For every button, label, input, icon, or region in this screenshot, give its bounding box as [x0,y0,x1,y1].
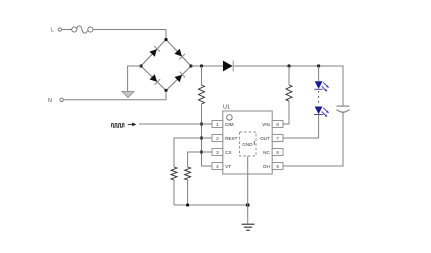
wire capacitor to CH pin 5 [283,112,343,166]
earth ground symbol [242,205,255,230]
pin label NC [263,150,270,155]
node rail / ground [246,203,250,207]
pin 6 box [272,149,283,156]
diode D4 (bridge bottom-right) [174,72,185,83]
wire REXT pin 2 to resistor R3 [174,138,212,167]
diode D1 (bridge top-left) [149,46,160,57]
svg-text:N: N [48,98,52,104]
wire N terminal to bridge bottom [63,91,166,100]
svg-text:1: 1 [216,122,219,127]
svg-text:U1: U1 [223,104,230,110]
terminal L circle [58,28,61,31]
pin 5 box [272,163,283,170]
pin label CS [225,150,231,155]
terminal L label [51,28,54,34]
wire CS pin 3 to resistor R4 [188,152,212,167]
PWM dimming square-wave symbol [112,124,125,128]
node bridge top vertex [164,38,167,41]
LED LED1 [314,81,329,92]
wire bridge left vertex to chassis ground [128,66,141,91]
node R1 column / DIM wire [200,122,203,125]
node bridge left vertex [139,64,142,67]
pin label OH [263,164,270,169]
wire R1 down to VT pin [202,104,213,166]
svg-text:L: L [51,28,54,34]
diode D3 (bridge bottom-left) [149,74,160,85]
svg-text:8: 8 [276,122,279,127]
bridge rectifier frame [141,40,191,91]
svg-text:OH: OH [263,164,270,169]
resistor R1 (bus to DIM/REXT/CS/VT column) [199,85,205,104]
terminal N label [48,98,52,104]
wire bus to LED1 [318,66,320,81]
LED LED2 [314,107,329,118]
wire bus to resistor R1 [201,66,203,85]
node bus / VIN resistor junction [287,64,290,67]
pin label VT [225,164,231,169]
svg-text:DIM: DIM [225,122,234,127]
svg-text:VT: VT [225,164,231,169]
svg-text:VIN: VIN [262,122,270,127]
wire LED2 to OUT pin 7 [283,115,319,138]
PWM input arrow [128,123,137,127]
svg-text:6: 6 [276,150,279,155]
wire bridge output to diode D5 [191,65,223,67]
resistor R4 (CS) [185,167,191,180]
node R1 column / CS wire [200,150,203,153]
node bus / R1 junction [200,64,203,67]
terminal N circle [60,98,63,101]
svg-text:4: 4 [216,164,219,169]
pin label VIN [262,122,270,127]
svg-text:NC: NC [263,150,270,155]
pin label REXT [225,136,237,141]
svg-text:3: 3 [216,150,219,155]
diode D2 (bridge top-right) [174,49,185,60]
pin label OUT [260,136,270,141]
node rail / R4 [186,203,189,206]
wire R2 to VIN pin 8 [283,101,289,124]
svg-text:7: 7 [276,136,279,141]
op-amp U1 body [223,104,272,174]
wire dashed LED string continuation [318,91,320,106]
pin 3 box [212,149,223,156]
node bus / LED string junction [317,64,320,67]
wire VIN resistor R2 to bus [288,66,290,85]
svg-text:GND: GND [242,142,253,147]
resistor R3 (REXT) [171,167,177,180]
diode D5 (series) [223,61,233,72]
node bridge right vertex [189,64,192,67]
wire D5 to bus right end [234,65,343,67]
pin 2 box [212,135,223,142]
svg-text:2: 2 [216,136,219,141]
wire ground rail [174,204,248,206]
wire R4 to ground rail [187,180,189,205]
svg-text:5: 5 [276,164,279,169]
wire bus corner down to capacitor C1 [342,66,344,106]
pin 8 box [272,121,283,128]
svg-text:CS: CS [225,150,231,155]
wire R3 to ground rail [173,180,175,205]
node R1 column / REXT wire [200,136,203,139]
GND thermal pad [240,132,257,205]
pin 4 box [212,163,223,170]
svg-text:REXT: REXT [225,136,237,141]
capacitor C1 [337,106,350,112]
node bridge bottom vertex [164,89,167,92]
svg-text:OUT: OUT [260,136,270,141]
wire fuse to bridge top [93,30,166,40]
chassis ground (bridge negative) [122,91,134,97]
pin 1 box [212,121,223,128]
wire L terminal to fuse [62,29,72,31]
resistor R2 (VIN) [286,85,292,101]
fuse F1 [72,26,93,33]
pin label DIM [225,122,234,127]
wire PWM arrow to DIM pin 1 [139,123,212,125]
pin 7 box [272,135,283,142]
